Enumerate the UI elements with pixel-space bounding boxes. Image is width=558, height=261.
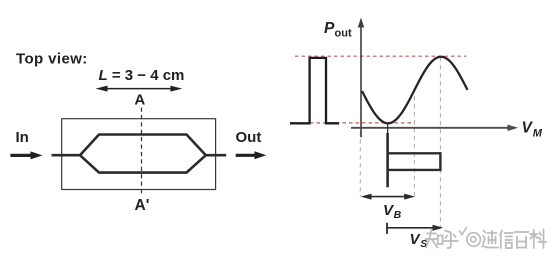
svg-text:out: out (335, 27, 352, 39)
svg-text:Out: Out (236, 129, 262, 146)
svg-text:In: In (16, 129, 29, 146)
svg-text:M: M (533, 128, 543, 140)
svg-text:V: V (522, 120, 534, 137)
svg-text:P: P (324, 20, 335, 37)
svg-text:L = 3 − 4 cm: L = 3 − 4 cm (99, 67, 185, 84)
svg-text:A': A' (135, 197, 150, 214)
svg-text:A: A (134, 92, 145, 109)
svg-text:S: S (420, 238, 427, 250)
svg-text:Top view:: Top view: (16, 51, 88, 68)
svg-text:B: B (394, 209, 402, 221)
